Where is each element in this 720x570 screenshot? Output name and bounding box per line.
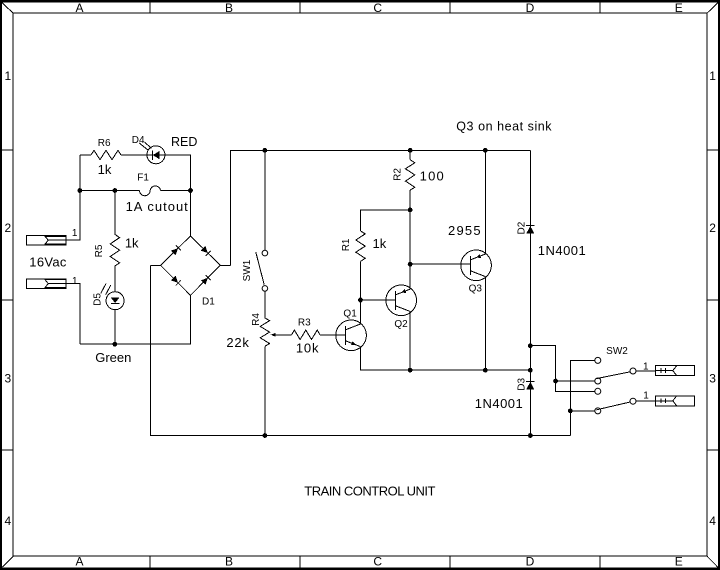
label R6 bbox=[98, 138, 111, 149]
svg-text:R4: R4 bbox=[251, 313, 262, 326]
label R4 bbox=[251, 313, 262, 326]
label R3 bbox=[298, 317, 311, 328]
wire to SW2 c2 bbox=[556, 380, 595, 382]
label R6 value 1k bbox=[98, 162, 112, 177]
label R2 value 100 bbox=[420, 169, 445, 184]
transistor Q1 bbox=[336, 320, 367, 351]
wire Q1 collector bbox=[360, 300, 362, 324]
label 16Vac bbox=[29, 254, 67, 269]
potentiometer R4 bbox=[260, 318, 269, 346]
label J1 pin 1 bbox=[72, 228, 78, 239]
label Q3 on heat sink bbox=[456, 119, 552, 133]
svg-text:D3: D3 bbox=[517, 377, 528, 390]
svg-text:TRAIN CONTROL UNIT: TRAIN CONTROL UNIT bbox=[304, 484, 435, 499]
diode D2 bbox=[526, 226, 535, 234]
wire Q1 emitter to rail bbox=[361, 346, 531, 370]
wire SW2 to J3 bbox=[636, 370, 656, 372]
label R5 bbox=[94, 244, 105, 257]
svg-text:1: 1 bbox=[643, 391, 649, 402]
wire to SW2 c4 bbox=[570, 410, 595, 412]
label R2 bbox=[392, 168, 403, 181]
svg-text:Q1: Q1 bbox=[343, 309, 357, 320]
connector J1 (16Vac top) bbox=[27, 236, 67, 246]
svg-text:D: D bbox=[526, 555, 535, 569]
svg-text:Q3: Q3 bbox=[469, 284, 483, 295]
junction dot rail-R2 bbox=[408, 148, 412, 152]
svg-text:C: C bbox=[373, 1, 382, 15]
svg-text:F1: F1 bbox=[137, 173, 149, 184]
junction dot Q2e-Q3b bbox=[408, 262, 412, 266]
wire bridge L to neg bottom bbox=[150, 265, 570, 435]
svg-text:A: A bbox=[75, 555, 83, 569]
svg-text:R2: R2 bbox=[392, 168, 403, 181]
wire R6 to D4 to corner bbox=[121, 155, 191, 191]
svg-text:1N4001: 1N4001 bbox=[538, 243, 587, 258]
wire wiper to R3 bbox=[275, 334, 291, 336]
title TRAIN CONTROL UNIT bbox=[304, 484, 435, 499]
LED D5 bbox=[101, 284, 124, 310]
label SW2 bbox=[606, 346, 628, 357]
wire R2 bottom lead bbox=[409, 190, 411, 210]
svg-text:1: 1 bbox=[72, 276, 78, 287]
label R3 value 10k bbox=[296, 341, 319, 356]
label D4 bbox=[132, 135, 145, 146]
wire D2dot to SW2 col bbox=[530, 346, 595, 392]
wire Q3 collector down bbox=[484, 276, 486, 370]
LED D4 bbox=[139, 142, 165, 164]
label Q1 bbox=[343, 309, 357, 320]
svg-text:2955: 2955 bbox=[448, 223, 482, 238]
junction dot Q3c-rail bbox=[483, 368, 487, 372]
svg-text:A: A bbox=[75, 1, 83, 15]
junction dot Q2c-rail bbox=[408, 368, 412, 372]
svg-text:1N4001: 1N4001 bbox=[475, 396, 524, 411]
label D2 bbox=[517, 221, 528, 234]
label R1 value 1k bbox=[373, 236, 387, 251]
wire R2dot down bbox=[409, 210, 411, 264]
wire green bbox=[80, 295, 191, 344]
junction dot R4-bottom bbox=[263, 434, 267, 438]
wire terminal2 down bbox=[66, 284, 80, 345]
label Q3 bbox=[469, 284, 483, 295]
svg-text:1k: 1k bbox=[125, 236, 139, 251]
wire Q2 collector down bbox=[409, 311, 411, 370]
wire R4 down bbox=[264, 346, 266, 435]
wire SW1 to R4 bbox=[264, 291, 266, 318]
label Green bbox=[95, 350, 131, 365]
label SW1 bbox=[242, 259, 253, 281]
svg-text:E: E bbox=[675, 555, 683, 569]
svg-text:16Vac: 16Vac bbox=[29, 254, 67, 269]
label D3 bbox=[517, 377, 528, 390]
wire R5 top lead bbox=[114, 191, 116, 235]
wire fuse right bbox=[161, 190, 191, 192]
svg-text:2: 2 bbox=[709, 221, 716, 235]
svg-text:1: 1 bbox=[72, 228, 78, 239]
svg-text:100: 100 bbox=[420, 169, 445, 184]
label J4 pin 1 bbox=[643, 391, 649, 402]
diode D3 bbox=[526, 382, 535, 390]
svg-text:10k: 10k bbox=[296, 341, 319, 356]
svg-text:R3: R3 bbox=[298, 317, 311, 328]
wire R1 top bbox=[361, 210, 411, 231]
connector J4 bbox=[656, 396, 695, 406]
label R5 value 1k bbox=[125, 236, 139, 251]
svg-text:D4: D4 bbox=[132, 135, 145, 146]
svg-text:R1: R1 bbox=[341, 238, 352, 251]
wire SW2 c1 feed bbox=[570, 360, 595, 435]
junction dot SW2 c2 bbox=[554, 379, 558, 383]
label RED bbox=[171, 135, 197, 149]
junction dot A2 bbox=[113, 189, 117, 193]
svg-text:1: 1 bbox=[643, 361, 649, 372]
svg-text:3: 3 bbox=[4, 372, 11, 386]
wire D5 to green wire bbox=[114, 310, 116, 345]
label 2955 bbox=[448, 223, 482, 238]
svg-text:1k: 1k bbox=[373, 236, 387, 251]
resistor R6 bbox=[91, 150, 121, 159]
svg-text:SW1: SW1 bbox=[242, 259, 253, 281]
resistor R2 bbox=[405, 160, 414, 191]
svg-text:R6: R6 bbox=[98, 138, 111, 149]
fuse F1 bbox=[140, 186, 161, 196]
switch SW1 bbox=[256, 250, 268, 291]
wire bridge T up bbox=[190, 191, 192, 236]
svg-text:Green: Green bbox=[95, 350, 131, 365]
svg-text:22k: 22k bbox=[226, 335, 249, 350]
switch SW2 bbox=[595, 357, 636, 414]
wire fuse left bbox=[80, 190, 140, 192]
wire R2 top lead bbox=[409, 150, 411, 159]
svg-text:1A cutout: 1A cutout bbox=[126, 199, 189, 214]
label R1 bbox=[341, 238, 352, 251]
svg-text:B: B bbox=[225, 1, 233, 15]
junction dot rail-SW1 bbox=[263, 148, 267, 152]
svg-text:D5: D5 bbox=[92, 293, 103, 306]
svg-text:3: 3 bbox=[709, 372, 716, 386]
svg-text:R5: R5 bbox=[94, 244, 105, 257]
junction dot R1R2 bbox=[408, 208, 412, 212]
junction dot D3-bottom bbox=[528, 434, 532, 438]
label J3 pin 1 bbox=[643, 361, 649, 372]
wire Q3 emitter up bbox=[484, 150, 486, 254]
wire D2 line bbox=[529, 150, 531, 435]
label D1 bbox=[202, 297, 215, 308]
label D2 value 1N4001 bbox=[538, 243, 587, 258]
svg-text:D1: D1 bbox=[202, 297, 215, 308]
svg-text:E: E bbox=[675, 1, 683, 15]
resistor R5 bbox=[110, 234, 119, 266]
bridge rectifier D1 bbox=[150, 236, 230, 295]
svg-text:1: 1 bbox=[709, 69, 716, 83]
svg-text:Q3 on heat sink: Q3 on heat sink bbox=[456, 119, 552, 133]
wire 16Vac terminal1 to fuse net bbox=[66, 155, 80, 240]
wire Q2 base bbox=[361, 299, 396, 301]
svg-text:D: D bbox=[526, 1, 535, 15]
junction dot D2-SW2 bbox=[528, 344, 532, 348]
junction dot A3 bbox=[189, 189, 193, 193]
wire bridge R to +rail bbox=[231, 150, 531, 265]
wire Q2 emitter up bbox=[409, 264, 411, 289]
junction dot green-D5 bbox=[113, 342, 117, 346]
connector J2 (16Vac bottom) bbox=[27, 279, 67, 289]
label D5 bbox=[92, 293, 103, 306]
svg-text:4: 4 bbox=[709, 514, 716, 528]
svg-text:1: 1 bbox=[4, 69, 11, 83]
label 1A cutout bbox=[126, 199, 189, 214]
transistor Q2 bbox=[386, 285, 417, 316]
label J2 pin 1 bbox=[72, 276, 78, 287]
connector J3 bbox=[656, 366, 695, 376]
svg-text:RED: RED bbox=[171, 135, 197, 149]
label Q2 bbox=[394, 319, 408, 330]
svg-text:D2: D2 bbox=[517, 221, 528, 234]
wire R6 left lead bbox=[80, 154, 91, 156]
junction dot A1 bbox=[78, 189, 82, 193]
svg-text:2: 2 bbox=[4, 221, 11, 235]
wire SW1 top bbox=[264, 150, 266, 250]
svg-text:B: B bbox=[225, 555, 233, 569]
label D3 value 1N4001 bbox=[475, 396, 524, 411]
svg-text:4: 4 bbox=[4, 514, 11, 528]
resistor R1 bbox=[356, 231, 365, 262]
label F1 bbox=[137, 173, 149, 184]
label R4 value 22k bbox=[226, 335, 249, 350]
junction dot SW2 c4 bbox=[568, 409, 572, 413]
resistor R3 bbox=[292, 330, 320, 339]
svg-text:C: C bbox=[373, 555, 382, 569]
wire Q3 base bbox=[410, 263, 470, 265]
transistor Q3 bbox=[461, 250, 492, 281]
svg-text:Q2: Q2 bbox=[394, 319, 408, 330]
junction dot Q1c bbox=[359, 298, 363, 302]
junction dot rail-Q3e bbox=[483, 148, 487, 152]
wire R3 to Q1 base bbox=[320, 334, 346, 336]
R4 wiper arrow bbox=[271, 333, 276, 337]
wire SW2 to J4 bbox=[636, 400, 656, 402]
svg-text:SW2: SW2 bbox=[606, 346, 628, 357]
wire R5 to D5 bbox=[114, 266, 116, 292]
resistor R1 chain bbox=[360, 261, 362, 300]
junction dot rail-D2line bbox=[528, 368, 532, 372]
svg-text:1k: 1k bbox=[98, 162, 112, 177]
